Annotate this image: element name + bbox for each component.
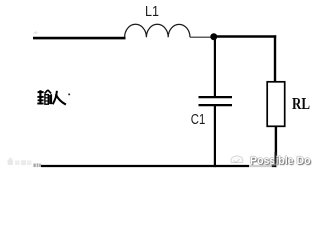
输 right part body [45,95,48,105]
label 输入 (input) drawn glyphs [37,90,51,105]
watermark icon bottom-right [231,156,243,163]
node junction dot [210,33,217,40]
speck after 输入 [68,94,70,96]
capacitor C1 plates [199,96,233,98]
输 right part roof [45,90,48,94]
wire input top-left [33,37,126,40]
svg-text:RL: RL [292,94,310,113]
watermark white backing haze [249,157,272,168]
resistor RL box [267,82,285,127]
输 left radical [38,91,44,93]
wire right vertical to resistor [274,35,276,81]
wire right vertical visible through watermark [274,152,276,164]
wire node to right corner [214,35,276,38]
svg-text:Possible Do: Possible Do [250,155,311,167]
wire inductor to node [190,36,212,38]
wire bottom return [41,165,277,167]
svg-text:C1: C1 [191,111,206,128]
入 glyph [53,91,66,105]
watermark bottom-left faint [8,158,32,165]
wire capacitor branch vertical [214,37,216,97]
inductor L1 [125,24,190,37]
svg-text:L1: L1 [145,3,159,20]
wire resistor bottom [275,126,277,167]
faint smudge above input wire [34,32,38,34]
